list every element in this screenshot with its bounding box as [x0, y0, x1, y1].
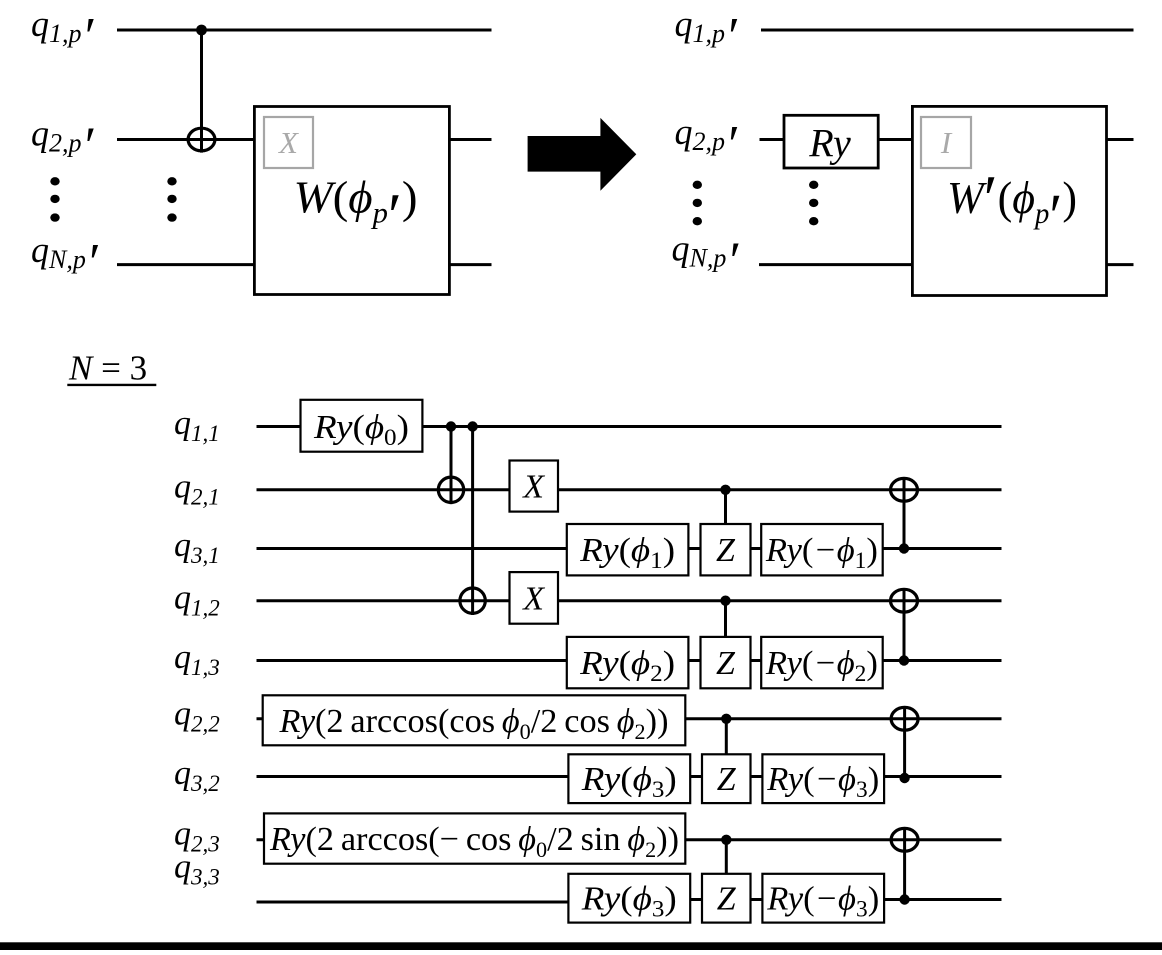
gate box X on q_{2,1}: [510, 461, 559, 512]
svg-text:Z: Z: [716, 645, 736, 682]
CNOT vertical line q_{1,2} to q_{1,3}: [903, 588, 906, 661]
control dot on q_{1,1} (second): [467, 421, 477, 431]
bottom black border bar: [0, 942, 1162, 950]
gate box Ry(-phi_2): [761, 637, 883, 688]
CNOT vertical line (left circuit): [200, 30, 203, 153]
vertical ellipsis beside labels (right circuit): [693, 181, 702, 226]
gate box Ry(2 arccos(-cos phi_0/2 sin phi_2)) on q_{2,3}: [264, 813, 685, 863]
big black arrow: [528, 118, 637, 191]
svg-text:Z: Z: [717, 881, 737, 918]
wire q_{3,2}: [257, 775, 1002, 778]
gate box Ry(phi_2): [567, 637, 689, 688]
vertical ellipsis on wires (left circuit): [167, 177, 176, 222]
unitary box W(phi_p'): [254, 107, 449, 295]
vertical ellipsis beside labels (left circuit): [50, 177, 59, 222]
wire q_{1,2}: [257, 599, 1002, 602]
CNOT target on q_{2,2} (right): [891, 707, 918, 730]
gate Ry box (right circuit): [784, 115, 878, 168]
gate box Z: [701, 637, 751, 688]
wire q_{3,3} left segment: [257, 901, 571, 904]
CNOT target on q_{2,3} (right): [891, 828, 918, 851]
svg-text:Ry(2 arccos(− cos ϕ0/2 sin ϕ2): Ry(2 arccos(− cos ϕ0/2 sin ϕ2)): [269, 821, 679, 862]
svg-text:N = 3: N = 3: [68, 349, 147, 388]
gate box Ry(phi_3): [568, 874, 690, 923]
CNOT target on q_{2,1}: [438, 477, 463, 502]
wire q_{2,p'} stub into Ry (right circuit): [760, 138, 786, 141]
wire q_{3,3} right segment: [570, 898, 1002, 901]
gate box Ry(phi_0) on q_{1,1}: [301, 400, 423, 452]
wire q_{2,p'} left segment (left circuit): [117, 138, 256, 141]
CNOT target on q_{2,1} (right): [891, 478, 918, 501]
svg-text:X: X: [521, 469, 545, 506]
wire q_{1,p'} (left circuit): [117, 29, 492, 32]
control dot on q_{2,2}: [721, 714, 731, 724]
CNOT target on q_{1,2}: [460, 588, 485, 613]
gate box Ry(-phi_3): [762, 874, 884, 923]
wire q_{2,p'} between Ry and W': [878, 138, 914, 141]
unitary box W'(phi_p'): [912, 106, 1106, 295]
control dot on q_{2,3}: [721, 835, 731, 845]
CNOT target on q_{1,2} (right): [891, 589, 918, 612]
wire q_{N,p'} left segment (left circuit): [117, 263, 256, 266]
svg-text:Ry: Ry: [808, 121, 851, 166]
gate box Ry(-phi_1): [761, 524, 883, 575]
control dot on q_{3,1} (right): [899, 543, 909, 553]
wire q_{2,3}: [257, 838, 1002, 841]
svg-text:I: I: [940, 125, 953, 160]
gate box Ry(-phi_3): [762, 754, 884, 803]
gate box Ry(phi_1): [567, 524, 689, 575]
gate box Ry(phi_3): [568, 754, 690, 803]
CNOT vertical line q_{2,3} to q_{3,3}: [903, 827, 906, 899]
wire q_{1,1}: [257, 425, 1002, 428]
svg-text:X: X: [521, 580, 545, 617]
CNOT vertical line q_{2,2} to q_{3,2}: [903, 706, 906, 778]
control dot on q_{1,3} (right): [899, 655, 909, 665]
wire q_{2,p'} right stub (left circuit): [449, 138, 492, 141]
wire q_{N,p'} into W': [759, 263, 914, 266]
wire q_{3,1}: [257, 547, 1002, 550]
CNOT control dot on q_{1,p'}: [196, 25, 207, 36]
gray X gate box inside W: [264, 117, 313, 168]
control dot on q_{3,2} (right): [899, 773, 909, 783]
gate box Z: [702, 754, 751, 803]
control dot on q_{3,3} (right): [899, 894, 909, 904]
wire q_{2,p'} output stub: [1106, 138, 1134, 141]
CNOT vertical line q_{1,1} to q_{1,2}: [471, 427, 474, 616]
wire q_{1,3}: [257, 659, 1002, 662]
control dot on q_{2,1}: [720, 485, 730, 495]
control-Z vertical line q_{2,3} to Z: [725, 840, 728, 875]
svg-text:Z: Z: [717, 761, 737, 798]
svg-text:X: X: [277, 125, 299, 160]
control dot on q_{1,1} (first): [446, 421, 456, 431]
control-Z vertical line q_{2,2} to Z: [725, 719, 728, 755]
svg-text:Ry(2 arccos(cos ϕ0/2 cos ϕ2)): Ry(2 arccos(cos ϕ0/2 cos ϕ2)): [278, 703, 668, 744]
gate box Z: [701, 524, 751, 575]
CNOT target circle on q_{2,p'}: [188, 128, 215, 151]
wire q_{2,2}: [257, 717, 1002, 720]
gate box X on q_{1,2}: [510, 572, 559, 624]
CNOT vertical line q_{2,1} to q_{3,1}: [903, 477, 906, 548]
control dot on q_{1,2}: [720, 596, 730, 606]
control-Z vertical line q_{1,2} to Z: [724, 601, 727, 637]
control-Z vertical line q_{2,1} to Z: [724, 490, 727, 524]
CNOT vertical line q_{1,1} to q_{2,1}: [450, 427, 453, 505]
wire q_{1,p'} (right circuit): [761, 29, 1134, 32]
heading underline: [67, 384, 156, 386]
wire q_{N,p'} output stub: [1106, 263, 1134, 266]
gate box Z: [702, 874, 751, 923]
gray I gate box inside W': [921, 117, 971, 168]
wire q_{N,p'} right stub (left circuit): [449, 263, 492, 266]
vertical ellipsis on wires (right circuit): [809, 181, 818, 226]
svg-text:Z: Z: [716, 532, 736, 569]
wire q_{2,1}: [257, 488, 1002, 491]
gate box Ry(2 arccos(cos phi_0/2 cos phi_2)) on q_{2,2}: [263, 695, 686, 745]
